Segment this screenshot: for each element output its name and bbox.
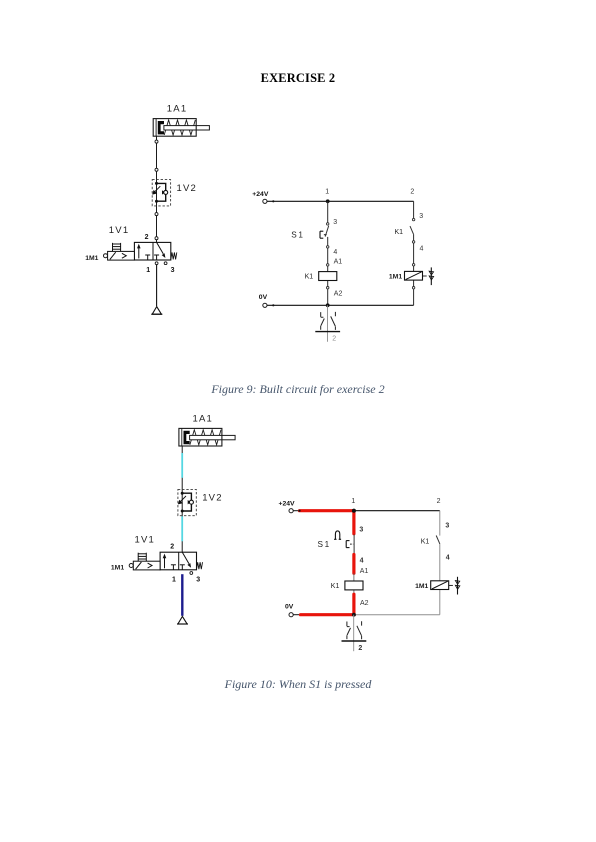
compressed air source bbox=[178, 616, 187, 624]
svg-text:A2: A2 bbox=[334, 290, 343, 297]
wire K1 blade to pin4 bbox=[413, 235, 415, 241]
svg-text:4: 4 bbox=[333, 249, 337, 256]
svg-text:4: 4 bbox=[446, 555, 450, 562]
node 1 junction bbox=[352, 509, 356, 513]
svg-text:K1: K1 bbox=[331, 583, 340, 590]
pressure line 1V2 to valve (light blue) bbox=[181, 516, 183, 541]
contact K1 blade (open) bbox=[410, 226, 414, 235]
terminal +24V bbox=[263, 199, 267, 203]
valve 1V1 spring return bbox=[171, 252, 177, 259]
svg-text:K1: K1 bbox=[305, 274, 314, 281]
svg-text:A2: A2 bbox=[360, 600, 369, 607]
actuation marker on S1 bbox=[335, 531, 339, 539]
pushbutton S1 closed contact bbox=[353, 535, 355, 555]
terminal 0V bbox=[289, 613, 293, 617]
relay coil K1 bbox=[319, 272, 337, 281]
solenoid 1M1 terminal node bbox=[129, 564, 133, 568]
pin 4 of contact K1 bbox=[412, 241, 414, 243]
solenoid 1M1 pilot of valve 1V1 bbox=[108, 251, 135, 260]
wire +24V rail energized (red) bbox=[300, 509, 354, 512]
wire +24V rail stub bbox=[293, 510, 299, 512]
wire solenoid 1M1 to 0V rail bbox=[413, 280, 415, 286]
relay K1 contact usage indicator bbox=[342, 615, 367, 652]
port node cylinder 1A1 bbox=[155, 140, 158, 143]
svg-text:1: 1 bbox=[172, 577, 176, 584]
pushbutton S1 contact blade bbox=[325, 226, 329, 237]
svg-text:0V: 0V bbox=[259, 294, 268, 301]
pin A1 of coil K1 bbox=[327, 264, 329, 266]
svg-text:4: 4 bbox=[360, 557, 364, 564]
wire +24V rail bbox=[267, 200, 414, 202]
svg-text:3: 3 bbox=[359, 527, 363, 534]
solenoid 1M1 electrical bbox=[431, 581, 449, 590]
svg-text:3: 3 bbox=[333, 219, 337, 226]
pin A2 of coil K1 bbox=[327, 287, 329, 289]
caption figure 9 bbox=[0, 382, 596, 397]
title EXERCISE 2 bbox=[0, 71, 596, 86]
valve 1V1 exhaust path 2 to 3 bbox=[182, 552, 191, 568]
port node valve 1V1 port 3 bbox=[190, 572, 193, 575]
terminal 0V bbox=[263, 303, 267, 307]
wire +24V rail to column 2 bbox=[354, 510, 440, 512]
compressed air source bbox=[152, 307, 161, 315]
wire node1 to S1 pin3 bbox=[327, 201, 329, 222]
wire coil A2 to 0V rail bbox=[327, 281, 329, 287]
svg-text:1M1: 1M1 bbox=[85, 255, 98, 262]
wire node2 to K1 contact bbox=[439, 511, 441, 536]
svg-text:1V1: 1V1 bbox=[135, 535, 156, 546]
pin bottom of solenoid 1M1 bbox=[412, 287, 414, 289]
cylinder 1A1 bbox=[153, 119, 209, 137]
wire 0V rail energized (red) bbox=[301, 613, 355, 616]
valve 1V1 exhaust path 2 to 3 bbox=[157, 242, 166, 258]
svg-text:3: 3 bbox=[419, 213, 423, 220]
svg-text:K1: K1 bbox=[395, 229, 404, 236]
flow control valve 1V2 bypass check valve bbox=[155, 182, 168, 203]
valve 1V1 blocked port 1 bbox=[154, 255, 159, 260]
valve 1V1 blocked port left square bbox=[171, 565, 176, 570]
flow control valve 1V2 throttle arrow bbox=[152, 186, 160, 194]
port node 1V2 top bbox=[155, 168, 158, 171]
svg-text:1V2: 1V2 bbox=[177, 183, 198, 194]
pushbutton S1 manual actuator bbox=[346, 541, 353, 548]
valve link symbol of 1M1 bbox=[423, 267, 434, 285]
port node valve 1V1 port 2 bbox=[155, 237, 158, 240]
pin top of solenoid 1M1 bbox=[412, 264, 414, 266]
valve 1V1 blocked port 1 bbox=[180, 565, 185, 570]
flow control valve 1V2 dashed enclosure bbox=[152, 180, 170, 206]
valve 1V1 body bbox=[134, 242, 170, 260]
svg-text:2: 2 bbox=[332, 336, 336, 343]
pressure line cylinder to 1V2 (light blue) bbox=[181, 453, 183, 478]
wire S1 pin4 to coil A1 energized (red) bbox=[352, 555, 355, 574]
svg-text:0V: 0V bbox=[285, 604, 294, 611]
wire rail node bbox=[298, 510, 300, 512]
pin 3 of contact K1 bbox=[412, 218, 414, 220]
node 1 junction bbox=[326, 199, 330, 203]
svg-text:2: 2 bbox=[145, 234, 149, 241]
svg-text:1V2: 1V2 bbox=[202, 493, 223, 504]
svg-text:A1: A1 bbox=[334, 258, 343, 265]
svg-text:1A1: 1A1 bbox=[193, 413, 214, 424]
flow control valve 1V2 bypass check valve bbox=[181, 492, 194, 513]
wire 0V rail node bbox=[272, 304, 274, 306]
svg-text:1: 1 bbox=[351, 498, 355, 505]
valve 1V1 spring return bbox=[197, 562, 203, 569]
svg-text:S 1: S 1 bbox=[318, 540, 330, 549]
wire S1 blade to pin4 bbox=[327, 237, 329, 246]
pin 3 of S1 bbox=[327, 223, 329, 225]
wire coil stub A1 bbox=[353, 573, 355, 581]
svg-text:S 1: S 1 bbox=[291, 230, 303, 239]
svg-text:4: 4 bbox=[420, 245, 424, 252]
node 0V junction bbox=[352, 613, 356, 617]
wire node2 to K1 contact pin3 bbox=[413, 201, 415, 218]
port node valve 1V1 port 3 bbox=[164, 262, 167, 265]
cylinder 1A1 bbox=[179, 428, 235, 446]
wire rail node bbox=[272, 200, 274, 202]
port node 1V2 bottom bbox=[155, 213, 158, 216]
wire valve 1V1 port 1 to air supply bbox=[181, 574, 183, 616]
pushbutton S1 manual actuator bbox=[320, 231, 327, 238]
svg-text:3: 3 bbox=[445, 523, 449, 530]
valve 1V1 left position flow arrow bbox=[163, 554, 167, 569]
svg-text:1A1: 1A1 bbox=[167, 104, 188, 115]
wire coil A2 to 0V rail energized (red) bbox=[352, 594, 355, 613]
caption figure 10 bbox=[0, 677, 596, 692]
wire K1 contact to solenoid 1M1 bbox=[439, 544, 441, 581]
valve 1V1 body bbox=[160, 552, 196, 570]
svg-text:1M1: 1M1 bbox=[415, 583, 428, 590]
svg-text:1M1: 1M1 bbox=[389, 274, 402, 281]
flow control valve 1V2 throttle arrow bbox=[178, 496, 186, 504]
relay coil K1 bbox=[345, 581, 363, 590]
svg-text:1V1: 1V1 bbox=[109, 225, 130, 236]
wire solenoid 1M1 to 0V rail bbox=[439, 590, 441, 615]
solenoid 1M1 terminal node bbox=[104, 254, 108, 258]
manual override of valve 1V1 bbox=[138, 553, 146, 562]
pin 4 of S1 bbox=[327, 246, 329, 248]
valve 1V1 left position flow arrow bbox=[137, 244, 141, 259]
valve link symbol of 1M1 bbox=[449, 577, 460, 595]
svg-text:1: 1 bbox=[146, 267, 150, 274]
port node valve 1V1 port 1 bbox=[155, 262, 158, 265]
wire S1 pin4 to coil A1 bbox=[327, 248, 329, 264]
wire 0V rail return from column 2 bbox=[354, 614, 440, 616]
valve 1V1 blocked port left square bbox=[145, 255, 150, 260]
svg-text:2: 2 bbox=[437, 498, 441, 505]
svg-text:3: 3 bbox=[196, 577, 200, 584]
flow control valve 1V2 dashed enclosure bbox=[178, 489, 196, 515]
node 1 junction dot bbox=[352, 509, 356, 513]
solenoid 1M1 electrical bbox=[405, 271, 423, 280]
contact K1 blade (open) bbox=[436, 536, 440, 545]
wire coil stub A2 bbox=[353, 590, 355, 594]
wire cylinder 1A1 to valve 1V1 via 1V2 bbox=[156, 136, 158, 242]
terminal +24V bbox=[289, 509, 293, 513]
svg-text:+24V: +24V bbox=[279, 500, 296, 507]
svg-text:3: 3 bbox=[171, 267, 175, 274]
wire 0V rail bbox=[267, 304, 414, 306]
svg-text:1M1: 1M1 bbox=[111, 565, 124, 572]
wire 0V rail stub bbox=[293, 614, 300, 616]
relay K1 contact usage indicator bbox=[315, 305, 340, 342]
wire valve 1V1 port 1 to air supply bbox=[156, 265, 158, 307]
svg-text:2: 2 bbox=[358, 645, 362, 652]
solenoid 1M1 pilot of valve 1V1 bbox=[133, 561, 160, 570]
svg-text:+24V: +24V bbox=[252, 191, 269, 198]
svg-text:1: 1 bbox=[325, 188, 329, 195]
manual override of valve 1V1 bbox=[113, 243, 121, 252]
svg-text:A1: A1 bbox=[360, 568, 369, 575]
wire node1 to S1 pin3 energized (red) bbox=[352, 511, 355, 534]
wire pin4 to solenoid 1M1 bbox=[413, 243, 415, 264]
wire cylinder 1A1 to valve 1V1 via 1V2 bbox=[181, 446, 183, 552]
svg-text:K1: K1 bbox=[421, 538, 430, 545]
node 0V junction bbox=[326, 303, 330, 307]
svg-text:2: 2 bbox=[170, 544, 174, 551]
svg-text:2: 2 bbox=[410, 188, 414, 195]
